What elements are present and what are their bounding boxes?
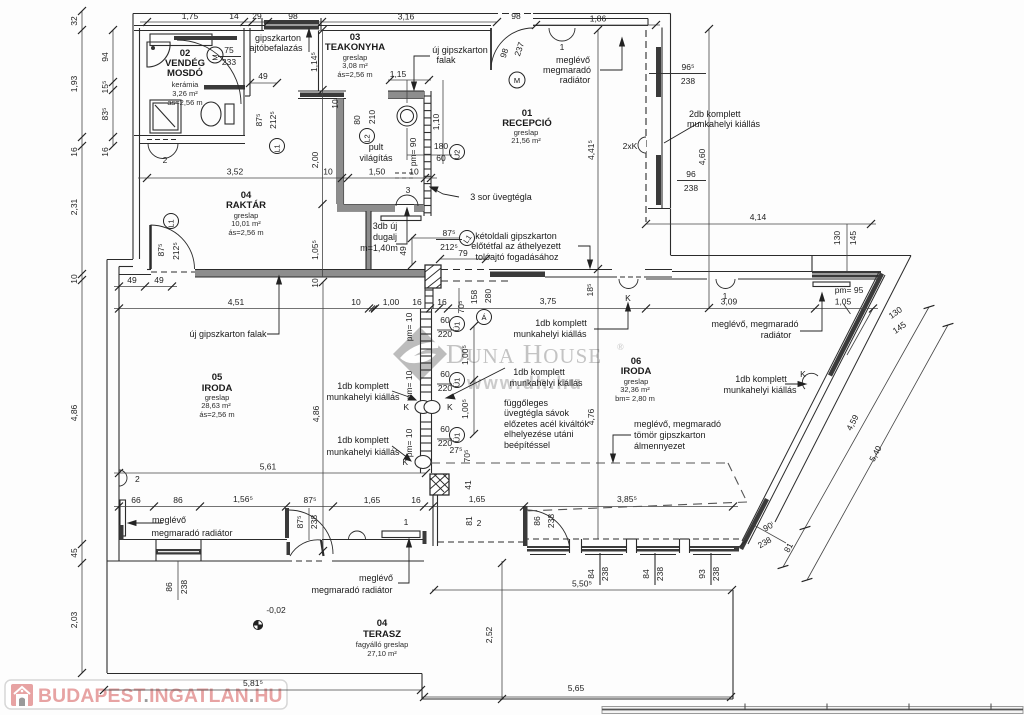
svg-text:2: 2 bbox=[477, 518, 482, 528]
svg-text:1db komplett: 1db komplett bbox=[535, 318, 587, 328]
svg-text:2,31: 2,31 bbox=[69, 198, 79, 215]
svg-text:2: 2 bbox=[163, 155, 168, 165]
svg-text:tömör gipszkarton: tömör gipszkarton bbox=[634, 430, 706, 440]
svg-text:M: M bbox=[514, 76, 520, 85]
svg-text:1: 1 bbox=[560, 42, 565, 52]
svg-text:meglévő: meglévő bbox=[359, 573, 393, 583]
svg-text:238: 238 bbox=[600, 567, 610, 581]
svg-text:Ü1: Ü1 bbox=[453, 378, 462, 388]
svg-text:86: 86 bbox=[164, 582, 174, 592]
svg-text:96: 96 bbox=[686, 169, 696, 179]
svg-text:1,86: 1,86 bbox=[590, 14, 607, 24]
svg-text:1,00: 1,00 bbox=[383, 297, 400, 307]
svg-text:1,15: 1,15 bbox=[390, 69, 407, 79]
svg-text:238: 238 bbox=[684, 183, 698, 193]
svg-text:új gipszkarton falak: új gipszkarton falak bbox=[189, 329, 267, 339]
svg-text:1,10: 1,10 bbox=[431, 113, 441, 130]
svg-text:238: 238 bbox=[681, 76, 695, 86]
svg-text:pm= 10: pm= 10 bbox=[404, 370, 414, 399]
svg-text:41: 41 bbox=[463, 480, 473, 490]
svg-text:ás=2,56 m: ás=2,56 m bbox=[228, 228, 263, 237]
svg-text:233: 233 bbox=[222, 57, 236, 67]
svg-text:MOSDÓ: MOSDÓ bbox=[167, 67, 203, 79]
svg-text:3,52: 3,52 bbox=[227, 167, 244, 177]
svg-text:130: 130 bbox=[832, 231, 842, 245]
svg-text:falak: falak bbox=[436, 55, 456, 65]
svg-text:18⁵: 18⁵ bbox=[585, 284, 595, 297]
svg-text:álmennyezet: álmennyezet bbox=[634, 441, 686, 451]
svg-text:világítás: világítás bbox=[359, 153, 393, 163]
svg-text:1,05⁵: 1,05⁵ bbox=[310, 240, 320, 260]
svg-text:32: 32 bbox=[69, 16, 79, 26]
svg-text:70⁵: 70⁵ bbox=[456, 301, 466, 314]
svg-text:fagyálló greslap: fagyálló greslap bbox=[356, 640, 409, 649]
svg-text:1,65: 1,65 bbox=[364, 495, 381, 505]
svg-text:238: 238 bbox=[711, 567, 721, 581]
svg-text:pm= 95: pm= 95 bbox=[835, 285, 864, 295]
svg-text:10: 10 bbox=[351, 297, 361, 307]
svg-text:elhelyezése utáni: elhelyezése utáni bbox=[504, 429, 574, 439]
svg-text:212⁵: 212⁵ bbox=[171, 242, 181, 260]
svg-text:1,00⁵: 1,00⁵ bbox=[460, 399, 470, 419]
svg-text:60: 60 bbox=[440, 424, 450, 434]
svg-text:3: 3 bbox=[406, 185, 411, 195]
svg-text:1db komplett: 1db komplett bbox=[735, 374, 787, 384]
svg-text:5,81⁵: 5,81⁵ bbox=[243, 678, 263, 688]
svg-text:2: 2 bbox=[135, 474, 140, 484]
svg-text:előzetes acél kiváltók: előzetes acél kiváltók bbox=[504, 419, 590, 429]
svg-text:meglévő, megmaradó: meglévő, megmaradó bbox=[711, 319, 798, 329]
svg-text:3,16: 3,16 bbox=[398, 12, 415, 22]
svg-text:212⁵: 212⁵ bbox=[268, 111, 278, 129]
svg-text:5,61: 5,61 bbox=[260, 462, 277, 472]
svg-text:16: 16 bbox=[437, 297, 447, 307]
svg-text:ás=2,56 m: ás=2,56 m bbox=[337, 70, 372, 79]
svg-text:86: 86 bbox=[173, 495, 183, 505]
svg-text:3,08 m²: 3,08 m² bbox=[342, 61, 368, 70]
svg-text:3,75: 3,75 bbox=[540, 296, 557, 306]
svg-text:238: 238 bbox=[655, 567, 665, 581]
svg-text:meglévő: meglévő bbox=[556, 55, 590, 65]
svg-text:21,56 m²: 21,56 m² bbox=[511, 136, 541, 145]
svg-text:munkahelyi kiállás: munkahelyi kiállás bbox=[326, 447, 400, 457]
svg-text:210: 210 bbox=[367, 110, 377, 124]
svg-text:4,60: 4,60 bbox=[697, 148, 707, 165]
svg-text:1,14⁵: 1,14⁵ bbox=[309, 52, 319, 72]
svg-text:megmaradó: megmaradó bbox=[543, 65, 591, 75]
svg-text:megmaradó radiátor: megmaradó radiátor bbox=[311, 585, 392, 595]
svg-text:®: ® bbox=[617, 342, 624, 352]
svg-text:munkahelyi kiállás: munkahelyi kiállás bbox=[509, 378, 583, 388]
svg-text:előtétfal az áthelyezett: előtétfal az áthelyezett bbox=[471, 241, 561, 251]
svg-text:1db komplett: 1db komplett bbox=[513, 367, 565, 377]
svg-text:29: 29 bbox=[252, 11, 262, 21]
svg-text:RAKTÁR: RAKTÁR bbox=[226, 200, 266, 211]
svg-text:10: 10 bbox=[330, 99, 340, 109]
svg-text:212⁵: 212⁵ bbox=[440, 242, 458, 252]
svg-text:radiátor: radiátor bbox=[761, 330, 792, 340]
svg-text:145: 145 bbox=[848, 231, 858, 245]
svg-text:10: 10 bbox=[409, 167, 419, 177]
svg-text:1: 1 bbox=[404, 517, 409, 527]
svg-text:10: 10 bbox=[323, 167, 333, 177]
svg-text:megmaradó radiátor: megmaradó radiátor bbox=[151, 528, 232, 538]
svg-text:1db komplett: 1db komplett bbox=[337, 381, 389, 391]
svg-text:05: 05 bbox=[212, 372, 223, 383]
svg-text:1db komplett: 1db komplett bbox=[337, 435, 389, 445]
svg-text:radiátor: radiátor bbox=[560, 75, 591, 85]
svg-text:K: K bbox=[625, 293, 631, 303]
svg-text:meglévő, megmaradó: meglévő, megmaradó bbox=[634, 419, 721, 429]
svg-text:49: 49 bbox=[258, 71, 268, 81]
svg-text:munkahelyi kiállás: munkahelyi kiállás bbox=[687, 119, 761, 129]
svg-text:70⁵: 70⁵ bbox=[462, 450, 472, 463]
svg-text:49: 49 bbox=[154, 275, 164, 285]
svg-text:28,63 m²: 28,63 m² bbox=[201, 401, 231, 410]
svg-text:1,93: 1,93 bbox=[69, 75, 79, 92]
svg-text:87⁵: 87⁵ bbox=[295, 516, 305, 529]
svg-text:1: 1 bbox=[723, 291, 728, 301]
svg-text:3db új: 3db új bbox=[373, 221, 398, 231]
svg-text:1,50: 1,50 bbox=[369, 167, 386, 177]
svg-text:5,65: 5,65 bbox=[568, 683, 585, 693]
svg-text:K: K bbox=[800, 369, 806, 379]
svg-text:m=1,40m: m=1,40m bbox=[360, 243, 398, 253]
svg-text:79: 79 bbox=[458, 248, 468, 258]
svg-text:üvegtégla sávok: üvegtégla sávok bbox=[504, 408, 570, 418]
svg-text:4,14: 4,14 bbox=[750, 212, 767, 222]
svg-text:L1: L1 bbox=[273, 144, 282, 152]
svg-text:Á: Á bbox=[481, 313, 486, 322]
svg-text:180: 180 bbox=[434, 141, 448, 151]
svg-text:49: 49 bbox=[398, 246, 408, 256]
svg-text:BUDAPEST.INGATLAN.HU: BUDAPEST.INGATLAN.HU bbox=[38, 686, 283, 707]
svg-text:280: 280 bbox=[483, 289, 493, 303]
svg-text:K: K bbox=[447, 402, 453, 412]
svg-text:4,86: 4,86 bbox=[69, 404, 79, 421]
svg-text:14: 14 bbox=[229, 11, 239, 21]
svg-text:238: 238 bbox=[179, 580, 189, 594]
svg-text:5,50⁵: 5,50⁵ bbox=[572, 579, 592, 589]
svg-text:munkahelyi kiállás: munkahelyi kiállás bbox=[723, 385, 797, 395]
svg-text:munkahelyi kiállás: munkahelyi kiállás bbox=[326, 392, 400, 402]
svg-text:32,36 m²: 32,36 m² bbox=[620, 385, 650, 394]
svg-text:75: 75 bbox=[224, 45, 234, 55]
svg-text:L2: L2 bbox=[363, 134, 372, 142]
svg-text:3,26 m²: 3,26 m² bbox=[172, 89, 198, 98]
svg-text:dugalj: dugalj bbox=[373, 232, 397, 242]
svg-text:16: 16 bbox=[100, 147, 110, 157]
svg-text:4,41⁵: 4,41⁵ bbox=[586, 140, 596, 160]
svg-text:81: 81 bbox=[464, 516, 474, 526]
svg-text:4,51: 4,51 bbox=[228, 297, 245, 307]
svg-text:86: 86 bbox=[532, 516, 542, 526]
svg-text:10,01 m²: 10,01 m² bbox=[231, 219, 261, 228]
svg-text:16: 16 bbox=[412, 297, 422, 307]
svg-text:M: M bbox=[211, 54, 220, 60]
svg-text:meglévő: meglévő bbox=[152, 515, 186, 525]
svg-text:15⁵: 15⁵ bbox=[100, 81, 110, 94]
svg-text:U2: U2 bbox=[453, 150, 462, 160]
svg-text:27,10 m²: 27,10 m² bbox=[367, 649, 397, 658]
svg-text:tolóajtó fogadásához: tolóajtó fogadásához bbox=[475, 252, 559, 262]
svg-text:2,52: 2,52 bbox=[484, 626, 494, 643]
svg-text:84: 84 bbox=[641, 569, 651, 579]
svg-text:98: 98 bbox=[288, 11, 298, 21]
svg-text:2,00: 2,00 bbox=[310, 151, 320, 168]
svg-text:87⁵: 87⁵ bbox=[304, 495, 317, 505]
svg-text:98: 98 bbox=[511, 11, 521, 21]
svg-text:Ü1: Ü1 bbox=[453, 433, 462, 443]
svg-text:94: 94 bbox=[100, 52, 110, 62]
svg-text:L1: L1 bbox=[167, 219, 176, 227]
svg-text:3,85⁵: 3,85⁵ bbox=[617, 494, 637, 504]
svg-text:238: 238 bbox=[309, 515, 319, 529]
svg-text:87⁵: 87⁵ bbox=[443, 228, 456, 238]
svg-text:93: 93 bbox=[697, 569, 707, 579]
svg-text:K: K bbox=[403, 402, 409, 412]
svg-text:16: 16 bbox=[69, 147, 79, 157]
svg-text:1,65: 1,65 bbox=[469, 494, 486, 504]
svg-text:ajtóbefalazás: ajtóbefalazás bbox=[249, 43, 303, 53]
svg-text:87⁵: 87⁵ bbox=[254, 114, 264, 127]
svg-text:TEAKONYHA: TEAKONYHA bbox=[325, 42, 385, 53]
svg-text:1,05: 1,05 bbox=[835, 297, 852, 307]
svg-text:2db komplett: 2db komplett bbox=[689, 109, 741, 119]
svg-text:-0,02: -0,02 bbox=[266, 605, 286, 615]
svg-text:60: 60 bbox=[440, 315, 450, 325]
svg-text:függőleges: függőleges bbox=[504, 398, 549, 408]
svg-text:49: 49 bbox=[127, 275, 137, 285]
svg-text:220: 220 bbox=[438, 383, 452, 393]
svg-text:84: 84 bbox=[586, 569, 596, 579]
svg-text:munkahelyi kiállás: munkahelyi kiállás bbox=[513, 329, 587, 339]
svg-text:238: 238 bbox=[546, 514, 556, 528]
svg-text:2xK: 2xK bbox=[623, 141, 638, 151]
svg-text:220: 220 bbox=[438, 329, 452, 339]
svg-text:IRODA: IRODA bbox=[621, 366, 652, 377]
svg-text:kerámia: kerámia bbox=[172, 80, 200, 89]
svg-text:158: 158 bbox=[469, 290, 479, 304]
svg-text:2,03: 2,03 bbox=[69, 611, 79, 628]
svg-text:87⁵: 87⁵ bbox=[156, 244, 166, 257]
svg-text:bm= 2,80 m: bm= 2,80 m bbox=[615, 394, 655, 403]
svg-text:60: 60 bbox=[436, 153, 446, 163]
svg-text:gipszkarton: gipszkarton bbox=[255, 33, 301, 43]
svg-text:TERASZ: TERASZ bbox=[363, 629, 401, 640]
svg-text:új gipszkarton: új gipszkarton bbox=[432, 45, 488, 55]
svg-text:ás=2,56 m: ás=2,56 m bbox=[167, 98, 202, 107]
svg-text:96⁵: 96⁵ bbox=[682, 62, 695, 72]
svg-text:83⁵: 83⁵ bbox=[100, 108, 110, 121]
svg-text:pm= 10: pm= 10 bbox=[404, 428, 414, 457]
svg-text:04: 04 bbox=[377, 618, 388, 629]
svg-text:27⁵: 27⁵ bbox=[450, 445, 463, 455]
svg-text:10: 10 bbox=[310, 278, 320, 288]
svg-text:16: 16 bbox=[411, 495, 421, 505]
svg-text:1,56⁵: 1,56⁵ bbox=[233, 494, 253, 504]
svg-text:80: 80 bbox=[352, 115, 362, 125]
svg-text:pm= 90: pm= 90 bbox=[408, 137, 418, 166]
svg-text:ás=2,56 m: ás=2,56 m bbox=[199, 410, 234, 419]
svg-text:45: 45 bbox=[69, 548, 79, 558]
svg-text:3 sor üvegtégla: 3 sor üvegtégla bbox=[470, 192, 532, 202]
svg-text:pm= 10: pm= 10 bbox=[404, 312, 414, 341]
svg-text:10: 10 bbox=[69, 274, 79, 284]
svg-text:1,75: 1,75 bbox=[182, 11, 199, 21]
svg-text:1,00⁵: 1,00⁵ bbox=[460, 345, 470, 365]
svg-text:66: 66 bbox=[131, 495, 141, 505]
svg-text:kétoldali gipszkarton: kétoldali gipszkarton bbox=[475, 231, 557, 241]
svg-text:4,86: 4,86 bbox=[311, 405, 321, 422]
svg-text:60: 60 bbox=[440, 369, 450, 379]
svg-text:Ü1: Ü1 bbox=[453, 322, 462, 332]
svg-text:beépítéssel: beépítéssel bbox=[504, 440, 550, 450]
